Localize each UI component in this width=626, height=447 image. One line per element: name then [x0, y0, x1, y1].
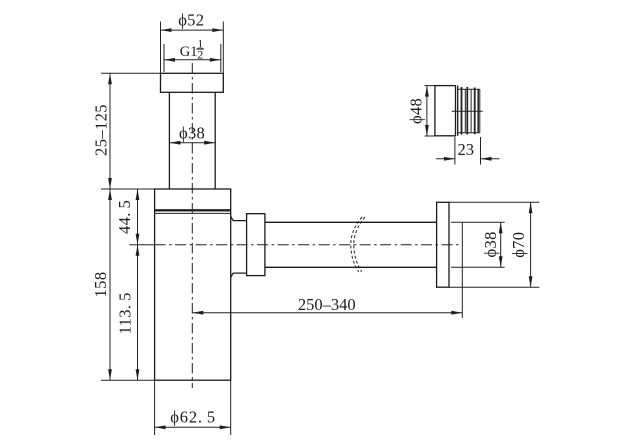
dim G1 1/2 [164, 37, 221, 72]
dim 158 [91, 189, 155, 380]
outlet boss [231, 216, 247, 277]
svg-text:250–340: 250–340 [298, 295, 356, 314]
pipe break mark [351, 217, 365, 272]
svg-text:ϕ70: ϕ70 [509, 232, 528, 258]
threaded adapter body [435, 86, 458, 136]
horizontal centerline [130, 244, 463, 246]
svg-text:113. 5: 113. 5 [115, 292, 134, 334]
trap body [155, 189, 231, 380]
body ring lower edge [155, 210, 231, 213]
dim Ø38 outlet [451, 222, 505, 267]
top flange [161, 73, 224, 92]
dim Ø48 [407, 86, 435, 136]
inlet pipe [169, 92, 215, 189]
svg-text:G1: G1 [180, 44, 198, 60]
svg-text:ϕ48: ϕ48 [407, 98, 426, 124]
dim Ø62.5 [155, 380, 231, 435]
dim 113.5 [115, 245, 139, 380]
wall flange [437, 202, 449, 287]
dim Ø70 [449, 202, 539, 287]
svg-text:ϕ62. 5: ϕ62. 5 [170, 407, 216, 426]
outlet nut [247, 214, 265, 276]
adapter centerline [452, 110, 483, 112]
svg-text:2: 2 [197, 47, 203, 61]
vertical centerline [191, 63, 193, 388]
svg-text:ϕ38: ϕ38 [481, 231, 500, 257]
dim 25-125 [91, 73, 160, 189]
svg-text:23: 23 [458, 140, 475, 159]
adapter threads [458, 87, 480, 135]
svg-text:ϕ52: ϕ52 [178, 11, 204, 30]
dim 44.5 [115, 189, 139, 245]
dim Ø52 [161, 11, 224, 74]
outlet pipe [265, 222, 437, 267]
dim 23 [436, 137, 499, 165]
svg-text:25–125: 25–125 [91, 104, 110, 156]
svg-text:44. 5: 44. 5 [115, 200, 134, 234]
svg-text:158: 158 [91, 272, 110, 298]
svg-text:ϕ38: ϕ38 [179, 123, 205, 142]
dim Ø38 inlet [169, 123, 215, 144]
dim 250-340 [192, 222, 462, 318]
